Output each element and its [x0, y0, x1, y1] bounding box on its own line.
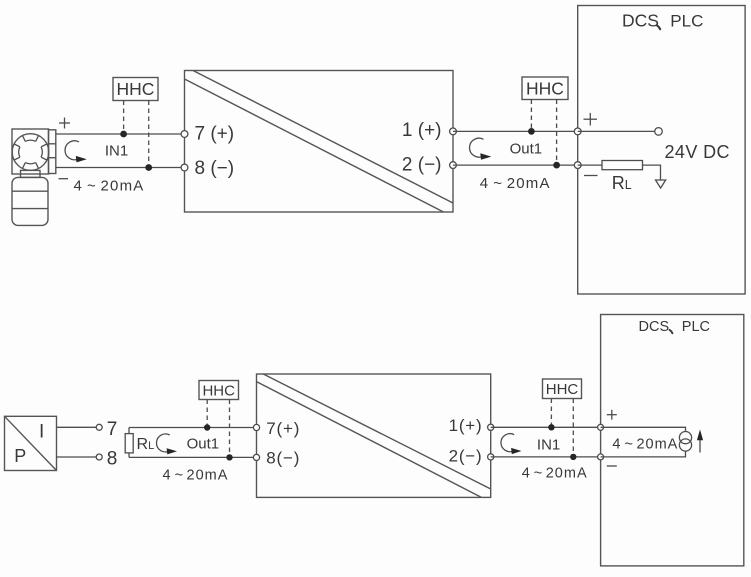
current direction arrow [697, 430, 703, 453]
dashed link HHC3 b [229, 400, 231, 458]
HHC box HHC4 [543, 379, 582, 399]
svg-text:7 (+): 7 (+) [195, 123, 235, 144]
svg-text:8(−): 8(−) [266, 449, 300, 468]
terminal circle P8 [96, 454, 102, 460]
terminal circle DCS2 - [598, 454, 604, 460]
polarity + (top left) [59, 118, 70, 129]
label DCS、PLC (top) [622, 10, 703, 30]
polarity - (top left) [59, 178, 69, 180]
transmitter bottle body [12, 177, 48, 225]
junction dot [570, 454, 576, 460]
loop arrow Out1 [470, 138, 492, 160]
transmitter head circle [12, 134, 49, 171]
svg-text:IN1: IN1 [537, 437, 560, 454]
transmitter terminal column [49, 130, 56, 174]
wire RL- [578, 164, 602, 166]
terminal circle 1 [450, 128, 457, 135]
terminal circle DCS2 + [598, 424, 604, 430]
junction dot [226, 454, 232, 460]
terminal circle 2 bottom [488, 454, 494, 460]
polarity + (DCS top) [584, 113, 598, 126]
svg-text:HHC: HHC [117, 79, 155, 99]
open terminal 24V [655, 128, 663, 136]
transmitter neck [21, 170, 41, 177]
wire Out1+ [453, 130, 578, 132]
junction dot [548, 424, 554, 430]
dashed link HHC1 b [148, 101, 150, 168]
resistor RL (bottom, vertical) [125, 428, 133, 458]
svg-text:8 (−): 8 (−) [195, 158, 235, 179]
svg-text:DCS: DCS [639, 319, 670, 335]
dashed link HHC4 a [550, 399, 552, 428]
transmitter TX body square [12, 129, 49, 174]
svg-text:Out1: Out1 [187, 436, 220, 453]
terminal circle 7 [181, 131, 188, 138]
svg-text:DCS: DCS [622, 10, 659, 30]
svg-text:PLC: PLC [682, 319, 710, 335]
DCS/PLC box (top) [578, 6, 745, 295]
HHC box HHC1 [113, 78, 158, 101]
HHC box HHC3 [199, 381, 239, 400]
loop arrow IN1 (bottom) [501, 434, 522, 454]
terminal circle DCS + [574, 128, 581, 135]
isolation barrier diagonal (bottom) [263, 374, 490, 489]
svg-text:8: 8 [107, 449, 118, 470]
dashed link HHC3 a [206, 400, 208, 428]
svg-text:I: I [39, 422, 44, 443]
current source symbol [679, 432, 691, 452]
svg-text:Out1: Out1 [510, 140, 543, 157]
svg-text:7(+): 7(+) [266, 419, 300, 438]
label DCS、PLC (bottom) [639, 319, 711, 335]
wire IN1+ [56, 133, 185, 135]
junction dot [528, 128, 535, 135]
svg-text:PLC: PLC [670, 11, 703, 30]
dashed link HHC2 b [556, 100, 558, 166]
svg-text:IN1: IN1 [105, 142, 128, 159]
svg-text:P: P [14, 446, 26, 466]
junction dot [120, 131, 127, 138]
dashed link HHC1 a [123, 101, 125, 135]
terminal circle 2 [450, 162, 457, 169]
wire Out1- [453, 164, 578, 166]
terminal circle 8 bottom [253, 454, 259, 460]
transmitter fan pattern [14, 136, 47, 169]
ground symbol [656, 180, 666, 188]
isolator box U1 [185, 71, 454, 213]
dashed link HHC2 a [530, 100, 532, 132]
terminal circle 7 bottom [253, 424, 259, 430]
wire IN1+ bottom [491, 426, 601, 428]
terminal circle 1 bottom [488, 424, 494, 430]
isolation barrier diagonal [193, 71, 453, 204]
loop arrow Out1 (bottom) [156, 434, 177, 454]
dashed link HHC4 b [572, 399, 574, 457]
junction dot [553, 162, 560, 169]
isolator box U2 [257, 374, 491, 497]
wire P8 [57, 456, 97, 458]
svg-text:HHC: HHC [546, 381, 579, 398]
svg-text:HHC: HHC [202, 382, 235, 399]
junction dot [204, 424, 210, 430]
wire IN1- bottom [491, 456, 601, 458]
wire IN1- [56, 167, 185, 169]
wire 24V+ [578, 130, 655, 132]
wire to current source + [601, 427, 686, 431]
resistor RL (top) [602, 161, 643, 170]
wire to current source - [601, 451, 686, 457]
wire loop bottom [129, 456, 257, 458]
DCS/PLC box (bottom) [601, 315, 744, 566]
wire P7 [57, 426, 97, 428]
svg-text:24V DC: 24V DC [665, 142, 730, 162]
polarity + (DCS bottom) [607, 410, 617, 420]
svg-text:1 (+): 1 (+) [402, 120, 442, 141]
junction dot [145, 164, 152, 171]
svg-text:7: 7 [107, 419, 118, 440]
svg-text:2(−): 2(−) [449, 447, 483, 466]
I/P converter box [5, 416, 57, 470]
I/P diagonal [5, 416, 57, 470]
polarity - (DCS bottom) [607, 465, 617, 467]
terminal circle 8 [181, 164, 188, 171]
terminal circle DCS - [574, 162, 581, 169]
wire RL to ground [643, 165, 661, 180]
polarity - (DCS top) [584, 175, 598, 177]
svg-text:2 (−): 2 (−) [402, 154, 442, 175]
terminal circle P7 [96, 424, 102, 430]
loop arrow IN1 [65, 141, 87, 163]
wire loop top [129, 427, 257, 429]
HHC box HHC2 [522, 77, 568, 100]
svg-text:1(+): 1(+) [449, 416, 483, 435]
svg-text:HHC: HHC [526, 79, 564, 99]
